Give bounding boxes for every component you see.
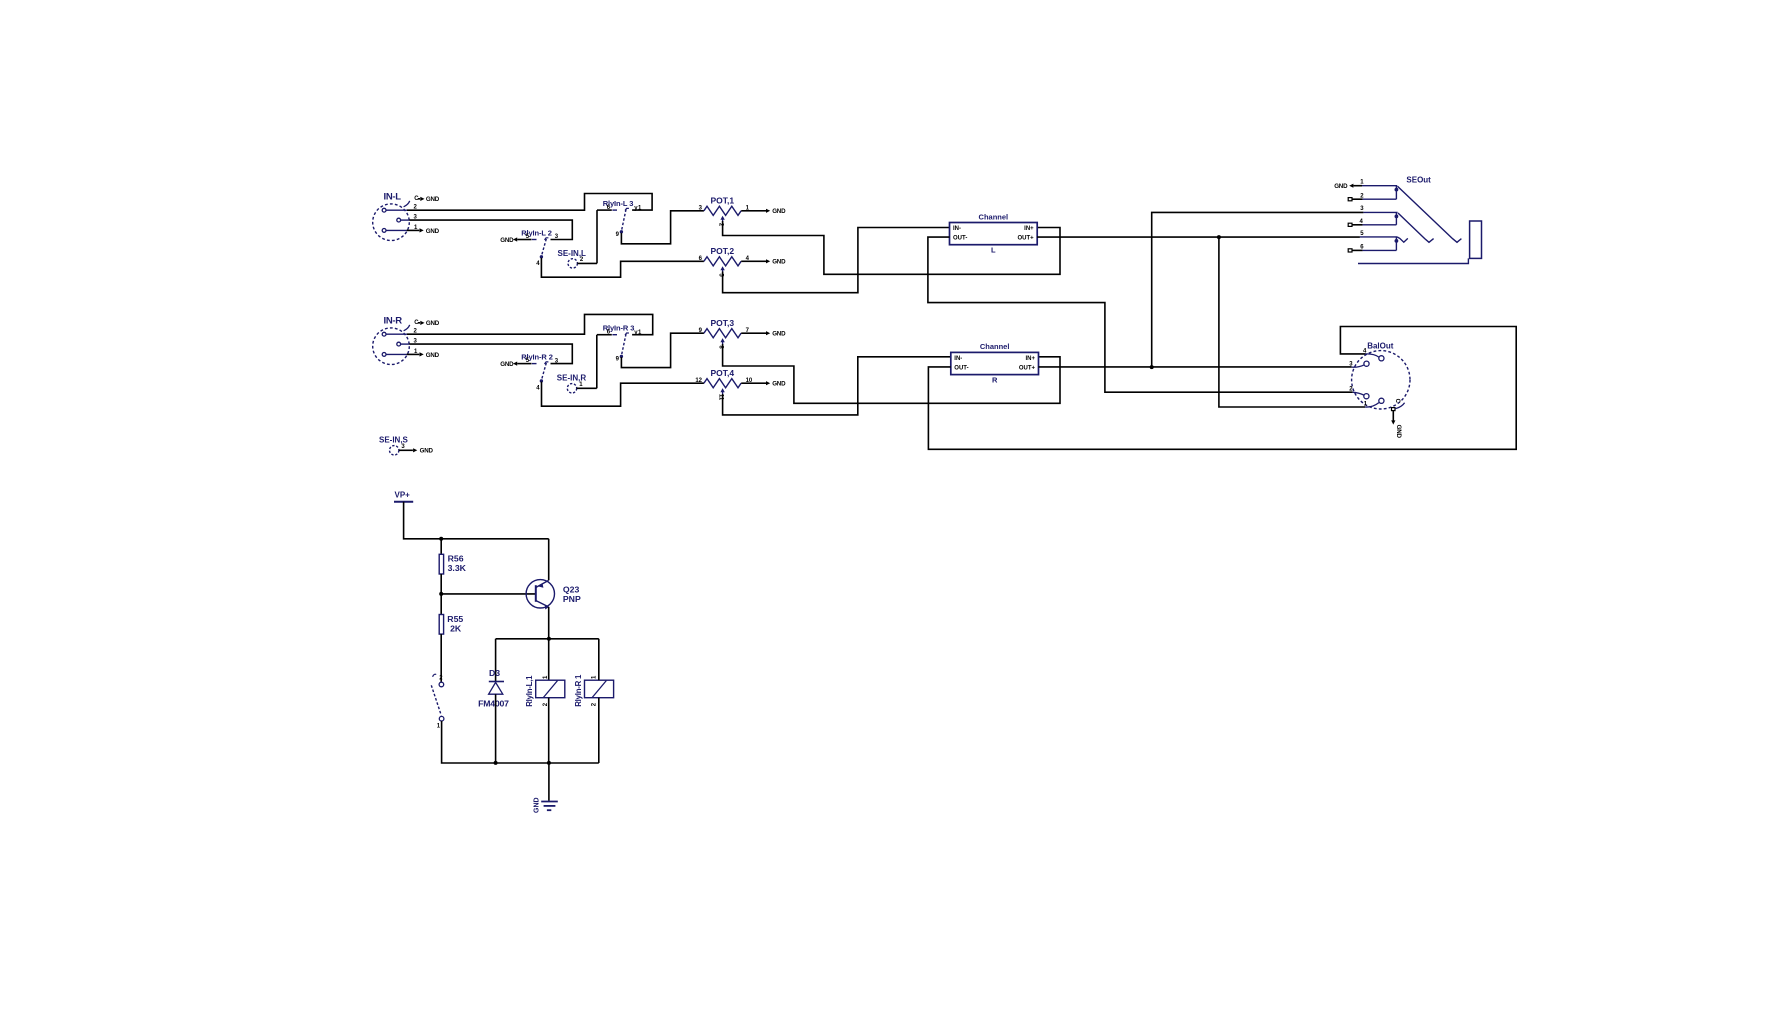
collector arrow (545, 605, 549, 609)
ground GND (420, 197, 424, 201)
svg-text:GND: GND (534, 797, 541, 813)
throw contact dash (532, 363, 537, 365)
pin 4 to pin 3 link (1395, 212, 1397, 224)
svg-text:IN-: IN- (953, 226, 961, 232)
svg-text:SEOut: SEOut (1406, 176, 1431, 185)
wire Channel L OUT+ to SEOut pin 5 (1037, 236, 1360, 238)
transistor Q23 (526, 580, 581, 610)
wire POT,2 wiper to Channel L IN- (723, 228, 950, 293)
wire shell to GND (418, 322, 420, 324)
anode triangle (489, 682, 503, 694)
wire RlyIn-L 3 pin 6 to SE-IN,L (596, 210, 598, 263)
svg-text:GND: GND (426, 320, 440, 327)
wire coil R1 top (598, 639, 600, 680)
svg-text:C: C (1394, 399, 1400, 404)
svg-text:BalOut: BalOut (1367, 341, 1394, 350)
relay coil RlyIn-L,1 (525, 675, 565, 707)
blade (621, 334, 626, 356)
ground GND (757, 260, 766, 262)
svg-text:IN+: IN+ (1025, 356, 1035, 362)
svg-text:IN-: IN- (954, 356, 962, 362)
wire to R56 (440, 539, 442, 555)
resistor R56 (439, 553, 466, 574)
Channel R block (951, 342, 1039, 384)
blade (431, 685, 441, 715)
pin 3 lead (1363, 211, 1397, 213)
wire R56 to R55 (440, 574, 442, 615)
pin 6 to pin 5 link (1395, 237, 1397, 251)
svg-text:GND: GND (500, 361, 514, 368)
wiper arrow (720, 266, 724, 270)
pin 4 lead (1352, 224, 1363, 226)
wire to GND (741, 260, 757, 262)
svg-text:12: 12 (695, 378, 702, 384)
svg-text:OUT-: OUT- (953, 236, 967, 242)
svg-text:POT,2: POT,2 (711, 246, 735, 256)
svg-text:POT,4: POT,4 (711, 368, 735, 378)
junction D3/bottom rail (494, 761, 498, 765)
wire IN-R pin2 to RlyIn-R 3 pin 1 (407, 314, 653, 334)
diode D3 (478, 639, 509, 763)
hinge (545, 362, 549, 364)
relay contact RlyIn-L 3 (597, 199, 642, 238)
coil diagonal (592, 681, 606, 698)
throw contact dash (612, 334, 617, 336)
svg-text:GND: GND (772, 381, 786, 388)
hinge (625, 333, 629, 335)
wire to SEOut pin 3 (1152, 212, 1364, 367)
pin 6 pad (1348, 249, 1352, 252)
hinge (625, 208, 629, 210)
potentiometer POT,3 (699, 318, 786, 349)
connector SE-IN,R (557, 374, 587, 393)
svg-text:3.3K: 3.3K (448, 563, 467, 573)
pin 1 lead (1353, 185, 1362, 187)
junction with SEOut pin 3 (1150, 365, 1154, 369)
resistive element (704, 257, 741, 266)
wire shell to GND (1392, 411, 1394, 421)
svg-text:GND: GND (426, 196, 440, 203)
pin 2 pad (1348, 198, 1352, 201)
svg-text:OUT+: OUT+ (1018, 236, 1035, 242)
pin 2 lead (1352, 198, 1363, 200)
wire IN-R pin3 to RlyIn-R 2 pin 3 (409, 344, 572, 364)
wire shell to GND (418, 198, 420, 200)
blade (541, 239, 546, 256)
wire POT,1 wiper to Channel L IN+ (723, 221, 1060, 274)
wire SE-IN,R pin 1 (577, 387, 597, 389)
pin 1 lead (386, 229, 407, 231)
pin 3 arc (1352, 365, 1364, 367)
sleeve bus (1358, 258, 1468, 263)
pin 3 lead (401, 219, 410, 221)
ground GND (420, 352, 424, 356)
wire SE-IN,L pin 2 (577, 262, 597, 264)
connector IN-R (XLR) (373, 316, 440, 365)
pin 1 arc (1365, 403, 1379, 407)
pin 1 lead (386, 353, 407, 355)
pin 6 lead (1352, 249, 1363, 251)
wire RlyIn-L 3 common to POT,1 pin 3 (621, 211, 704, 244)
svg-text:IN-L: IN-L (384, 192, 402, 203)
wire pin1 to GND (407, 229, 420, 231)
pin 2 to pin 1 link (1395, 186, 1397, 200)
wire IN-L pin3 to RlyIn-L 2 pin 3 (409, 220, 572, 239)
svg-text:GND: GND (1395, 425, 1402, 439)
wire RlyIn-R 2 common to POT,4 pin 12 (542, 382, 704, 407)
wire base node to Q23 base (441, 593, 535, 595)
ground GND (420, 228, 424, 232)
power rail VP+ (394, 491, 413, 502)
wire VP+ rail to Q23 emitter (548, 539, 550, 581)
junction OUT+ branch (1217, 235, 1221, 239)
svg-text:RlyIn-L,1: RlyIn-L,1 (525, 675, 534, 707)
wire Channel R OUT+ to BalOut pin 3 (1039, 366, 1352, 368)
svg-text:GND: GND (772, 208, 786, 215)
common junction (620, 230, 623, 233)
svg-text:D3: D3 (489, 668, 500, 678)
svg-text:Q23: Q23 (563, 585, 580, 595)
wire to ground (548, 763, 550, 801)
relay contact RlyIn-R 2 (500, 353, 559, 392)
svg-text:GND: GND (426, 352, 440, 359)
wire to GND (741, 332, 757, 334)
tip switch spring (1398, 186, 1462, 242)
cathode bar (489, 681, 504, 683)
wire coil L1 to bottom rail (548, 698, 550, 763)
svg-text:R56: R56 (448, 553, 464, 563)
common junction (540, 379, 543, 382)
wire Q23 collector to coil rail (548, 607, 550, 680)
svg-text:GND: GND (500, 237, 514, 244)
collector (536, 601, 549, 607)
wiper arrow (720, 216, 724, 220)
connector SEOut (TRS jack) (1334, 176, 1481, 264)
emitter (536, 580, 549, 587)
junction R56 top (439, 537, 443, 541)
potentiometer POT,4 (695, 368, 786, 401)
wire Channel L OUT- to BalOut pin 2 (928, 237, 1353, 392)
pin 2 arc (1353, 392, 1364, 395)
pin 5 lead (1360, 236, 1397, 238)
wire RlyIn-R 3 common to POT,3 pin 9 (621, 333, 704, 367)
svg-text:OUT+: OUT+ (1019, 365, 1036, 371)
svg-text:POT,1: POT,1 (711, 196, 735, 206)
pin 3 lead (401, 343, 410, 345)
svg-text:R55: R55 (447, 614, 463, 624)
sleeve contact (1397, 237, 1408, 242)
base bar (535, 585, 537, 602)
ground GND (413, 448, 417, 452)
svg-text:Channel: Channel (980, 342, 1010, 351)
pin 2 lead (386, 333, 407, 335)
wire RlyIn-L 2 common to POT,2 pin 6 (541, 258, 704, 277)
wire VP+ to rail (404, 502, 549, 539)
svg-text:PNP: PNP (563, 594, 581, 604)
svg-text:IN-R: IN-R (384, 316, 403, 327)
svg-text:OUT-: OUT- (954, 365, 968, 371)
throw contact dash (532, 239, 537, 241)
pin 6 lead (597, 209, 612, 211)
svg-text:VP+: VP+ (395, 491, 411, 500)
junction base node (439, 592, 443, 596)
pin 4 arc (1366, 354, 1379, 357)
wire IN-L pin2 to RlyIn-L 3 pin 1 (407, 194, 652, 211)
plug body (1470, 221, 1482, 258)
svg-text:GND: GND (420, 448, 434, 455)
shell arc (1395, 403, 1404, 409)
svg-text:2K: 2K (450, 624, 462, 634)
ground GND symbol (534, 797, 558, 813)
wire rail to D3 (495, 639, 497, 682)
wire SE-IN,S to GND (399, 449, 413, 451)
svg-text:Channel: Channel (979, 212, 1009, 221)
ring switch spring (1398, 213, 1434, 242)
wiper arrow (720, 338, 724, 342)
svg-text:R: R (992, 375, 998, 384)
svg-text:GND: GND (772, 331, 786, 338)
pin 6 lead (597, 334, 612, 336)
wire POT,3 wiper to Channel R IN+ (723, 344, 1060, 403)
junction GND stem (547, 761, 551, 765)
throw contact dash (612, 209, 617, 211)
ground GND (757, 210, 766, 212)
common junction (540, 255, 543, 258)
junction collector/rail (547, 637, 551, 641)
ground GND (757, 332, 766, 334)
shell pad (1392, 408, 1396, 411)
hinge (545, 238, 549, 240)
switch S2 (431, 674, 444, 729)
relay contact RlyIn-R 3 (597, 324, 642, 363)
wire to GND (741, 382, 757, 384)
connector BalOut (DIN) (1349, 341, 1410, 438)
resistive element (704, 329, 741, 338)
wire switch to bottom rail (442, 721, 599, 763)
shell lead arc (404, 325, 410, 331)
relay coil RlyIn-R,1 (574, 674, 614, 707)
blade (541, 363, 546, 380)
shell lead arc (404, 201, 410, 207)
svg-text:IN+: IN+ (1024, 226, 1034, 232)
connector SE-IN,S (379, 436, 409, 455)
ground GND (757, 382, 766, 384)
wire Channel L OUT+ to BalOut pin 1 (1219, 237, 1365, 407)
Channel L block (950, 212, 1038, 254)
emitter arrow (538, 584, 543, 588)
svg-text:GND: GND (1334, 183, 1348, 190)
wire coil R1 to bottom rail (598, 698, 600, 763)
svg-text:FM4007: FM4007 (478, 698, 509, 708)
svg-text:L: L (991, 246, 996, 255)
potentiometer POT,2 (699, 246, 786, 277)
svg-text:GND: GND (772, 259, 786, 266)
coil supply rail (496, 638, 599, 640)
ground GND (420, 321, 424, 325)
resistive element (704, 206, 741, 215)
pin 4 pad (1348, 223, 1352, 226)
pin 2 lead (386, 209, 407, 211)
wire to GND (741, 210, 757, 212)
ground GND (1391, 420, 1395, 424)
svg-text:GND: GND (426, 228, 440, 235)
wire RlyIn-R 3 pin 6 to SE-IN,R (596, 335, 598, 389)
wire pin1 to GND (407, 353, 420, 355)
connector IN-L (XLR) (373, 192, 440, 241)
wire D3 to bottom rail (495, 694, 497, 763)
resistive element (704, 379, 741, 388)
svg-text:POT,3: POT,3 (711, 318, 735, 328)
wire Channel R OUT- to BalOut pin 4 (loop) (928, 327, 1516, 450)
wire POT,4 wiper to Channel R IN- (723, 357, 951, 415)
hinge tick (433, 674, 437, 677)
relay contact RlyIn-L 2 (500, 228, 559, 267)
wire R55 to switch (440, 634, 442, 682)
common junction (620, 355, 623, 358)
resistor R55 (439, 614, 463, 634)
connector SE-IN,L (558, 249, 587, 268)
coil diagonal (543, 681, 557, 698)
blade (621, 209, 626, 231)
svg-text:RlyIn-R 1: RlyIn-R 1 (574, 674, 583, 707)
potentiometer POT,1 (699, 196, 786, 227)
wiper arrow (720, 388, 724, 392)
